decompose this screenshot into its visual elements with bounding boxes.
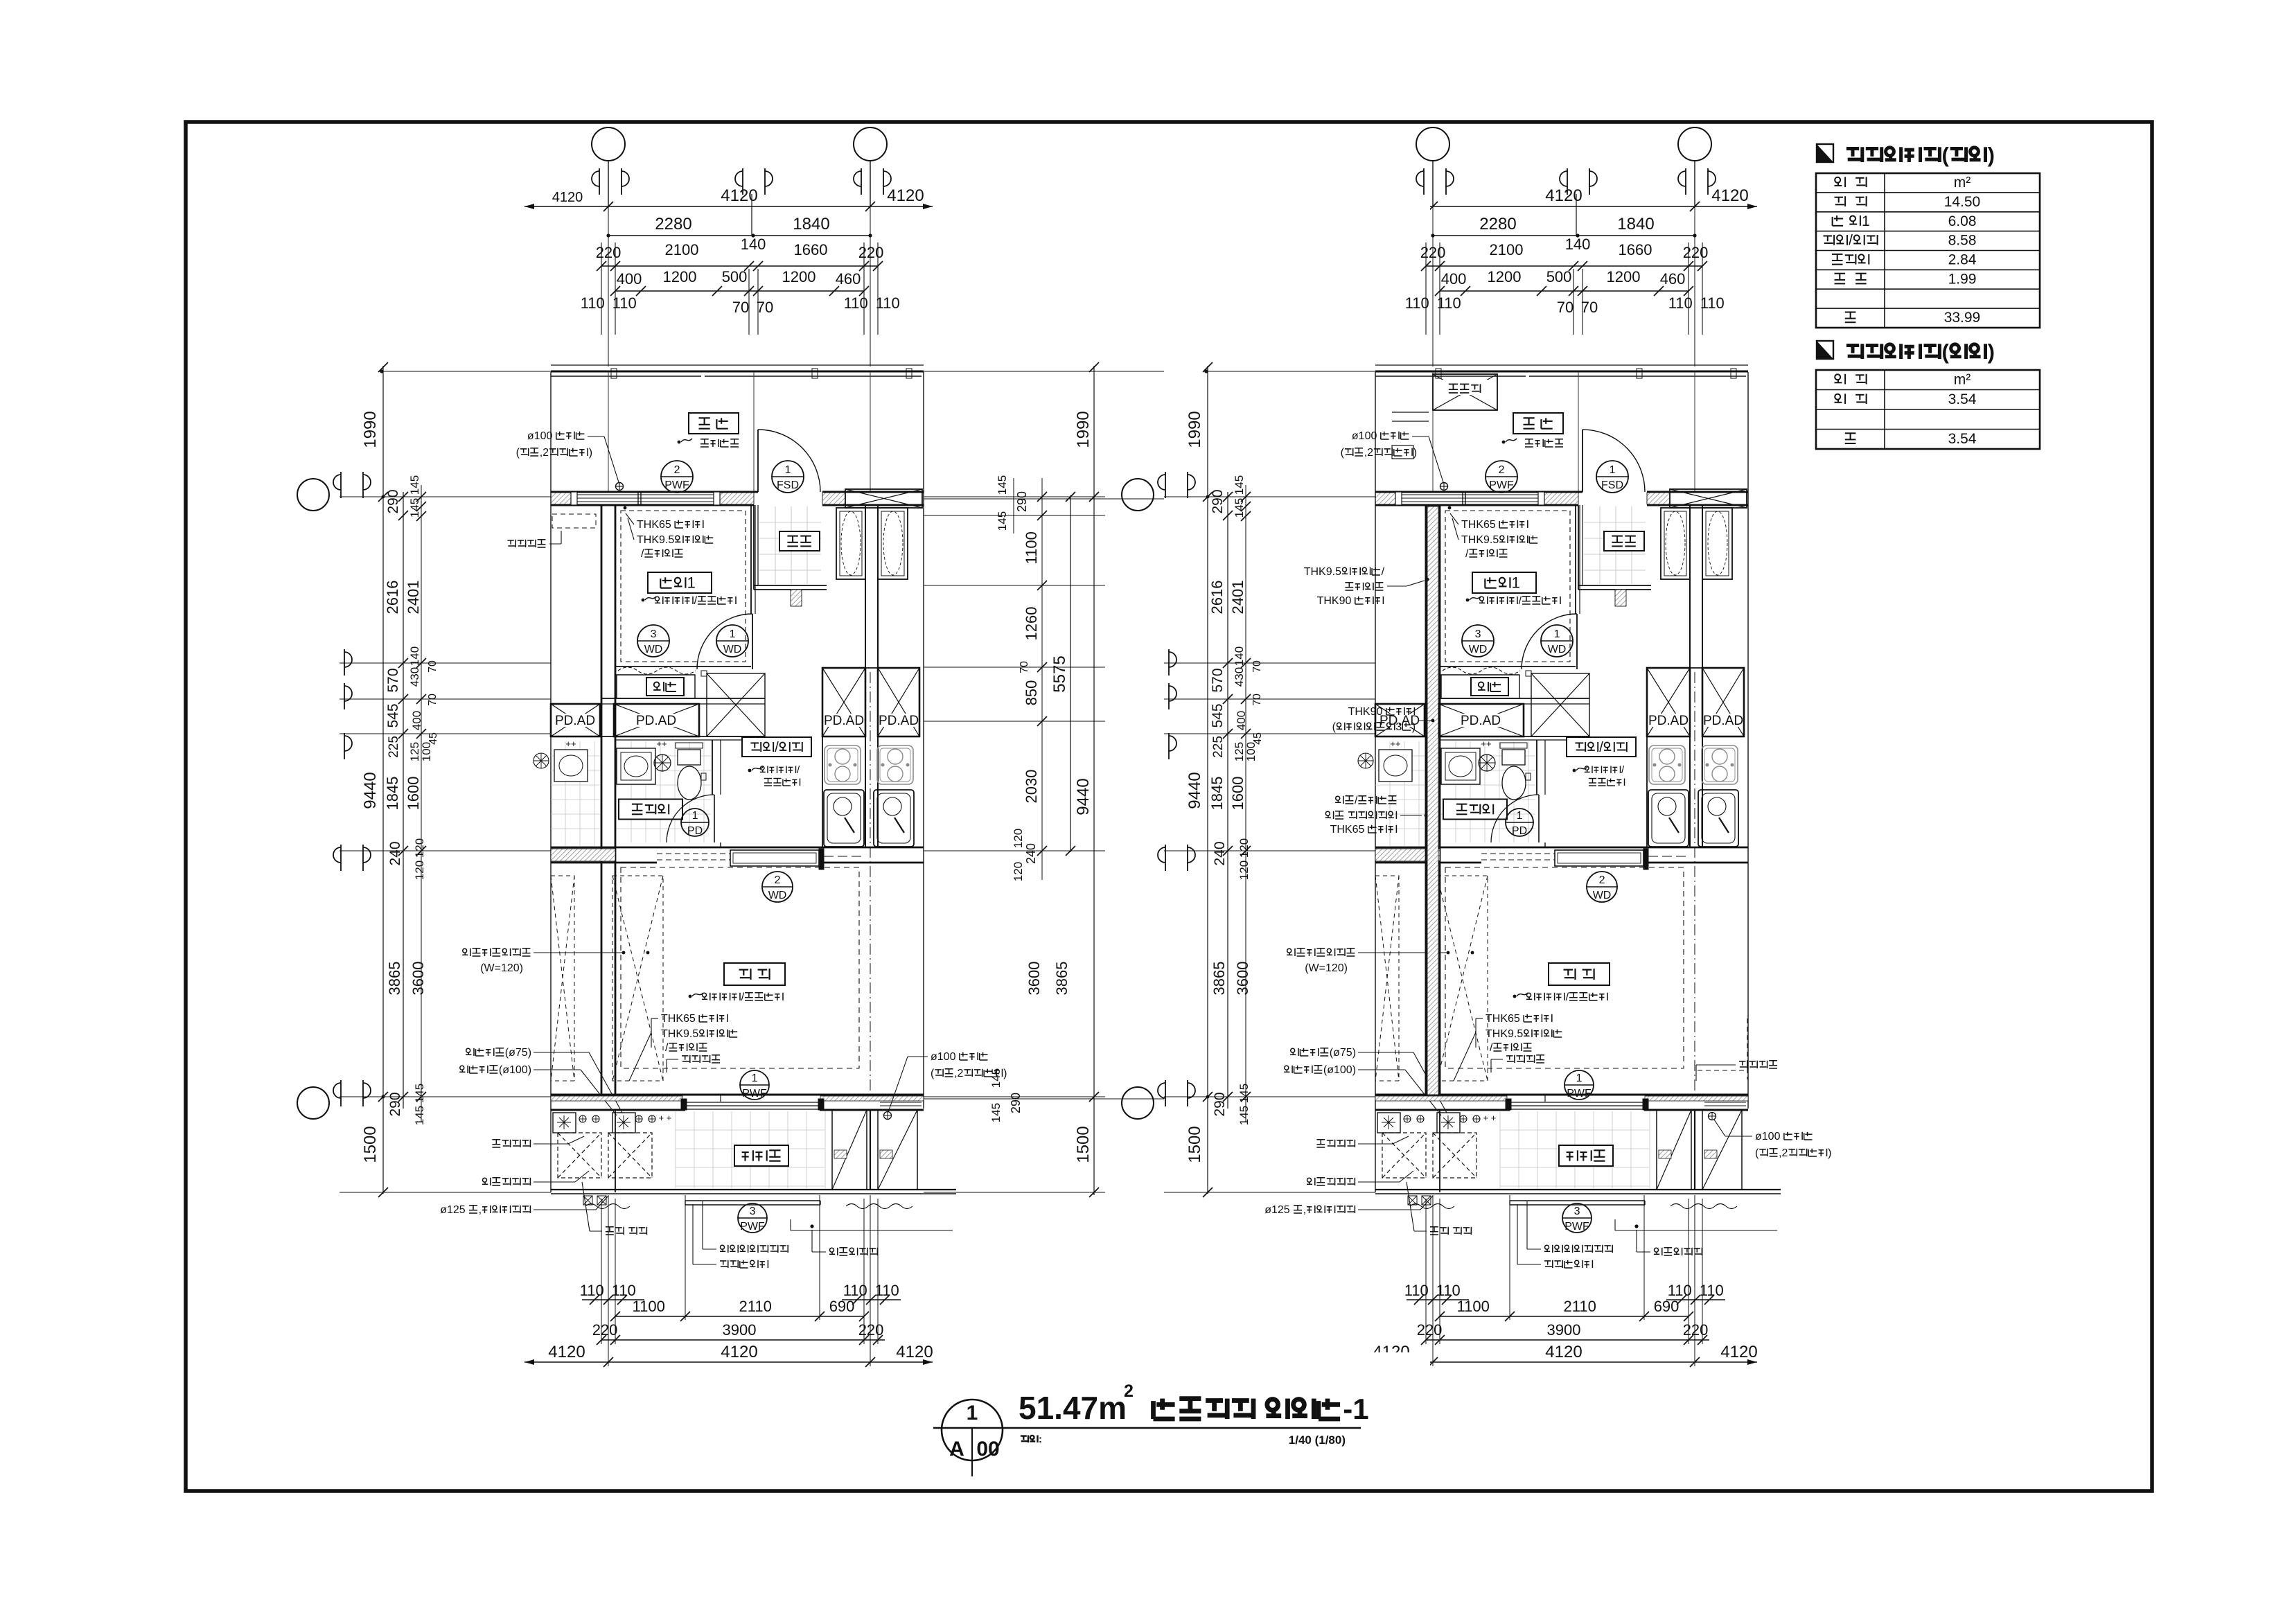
svg-text:/: / <box>1849 233 1853 249</box>
svg-text:145: 145 <box>413 1084 426 1103</box>
svg-text:51.47m: 51.47m <box>1019 1390 1127 1426</box>
svg-text:1100: 1100 <box>633 1298 665 1315</box>
svg-text:140: 140 <box>741 236 766 253</box>
svg-text:1: 1 <box>1862 213 1870 229</box>
svg-text:400: 400 <box>410 711 423 730</box>
svg-text:3.54: 3.54 <box>1948 391 1977 407</box>
svg-text:/: / <box>741 991 745 1003</box>
svg-text:1500: 1500 <box>361 1126 380 1163</box>
svg-text:THK9.5: THK9.5 <box>637 534 674 546</box>
svg-text:1: 1 <box>730 628 736 640</box>
svg-text:4120: 4120 <box>548 1343 585 1361</box>
svg-text:3.54: 3.54 <box>1948 431 1977 447</box>
svg-text:1/40 (1/80): 1/40 (1/80) <box>1289 1433 1346 1447</box>
svg-text:220: 220 <box>592 1321 618 1339</box>
svg-text:3600: 3600 <box>1025 962 1043 996</box>
svg-text:2110: 2110 <box>739 1298 772 1315</box>
svg-text:3865: 3865 <box>386 962 403 996</box>
svg-text:70: 70 <box>427 694 439 706</box>
svg-text:/: / <box>1355 795 1358 806</box>
svg-text:45: 45 <box>427 732 439 745</box>
svg-text:): ) <box>1988 339 1995 364</box>
svg-text:WD: WD <box>768 890 787 901</box>
svg-text:ø100: ø100 <box>931 1051 956 1063</box>
svg-text:290: 290 <box>1015 491 1029 512</box>
svg-text:3600: 3600 <box>409 962 427 996</box>
svg-text:THK9.5: THK9.5 <box>1304 566 1341 578</box>
svg-text:4120: 4120 <box>887 186 924 205</box>
svg-text:): ) <box>589 447 592 459</box>
svg-text:,2: ,2 <box>540 447 549 459</box>
svg-text:,: , <box>479 1204 482 1216</box>
svg-text:1.99: 1.99 <box>1948 271 1977 287</box>
svg-text:(: ( <box>1755 1147 1759 1159</box>
svg-text:145: 145 <box>996 511 1009 531</box>
svg-text:m²: m² <box>1954 175 1971 191</box>
svg-text:++: ++ <box>656 739 667 749</box>
svg-text:(: ( <box>1942 339 1950 364</box>
svg-text:14.50: 14.50 <box>1944 194 1981 210</box>
svg-text:2: 2 <box>1124 1382 1134 1401</box>
svg-text:3900: 3900 <box>723 1321 757 1339</box>
svg-text:8.58: 8.58 <box>1948 233 1977 249</box>
svg-text:1990: 1990 <box>361 411 380 448</box>
svg-text:545: 545 <box>385 703 401 727</box>
svg-text:/: / <box>694 595 698 607</box>
svg-text:PD.AD: PD.AD <box>636 714 676 728</box>
svg-text::: : <box>1039 1433 1042 1445</box>
svg-text:460: 460 <box>836 270 861 288</box>
svg-text:4120: 4120 <box>721 1343 757 1361</box>
svg-text:PD.AD: PD.AD <box>555 714 595 728</box>
svg-text:2100: 2100 <box>665 241 699 258</box>
svg-text:4120: 4120 <box>896 1343 933 1361</box>
svg-text:(W=120): (W=120) <box>480 962 523 974</box>
svg-text:WD: WD <box>644 644 663 655</box>
svg-text:240: 240 <box>1024 843 1038 864</box>
svg-text:WD: WD <box>723 644 742 655</box>
svg-text:1200: 1200 <box>663 268 697 285</box>
svg-text:-1: -1 <box>1343 1393 1368 1425</box>
svg-text:00: 00 <box>976 1438 999 1460</box>
svg-text:THK90: THK90 <box>1317 595 1352 607</box>
svg-text:1: 1 <box>687 574 696 592</box>
svg-text:PWF: PWF <box>740 1221 765 1233</box>
svg-text:430: 430 <box>408 667 421 687</box>
svg-text:1100: 1100 <box>1023 531 1040 564</box>
svg-text:/: / <box>775 740 779 755</box>
svg-text:1660: 1660 <box>794 241 828 258</box>
svg-text:110: 110 <box>580 1282 604 1299</box>
svg-text:): ) <box>1003 1068 1007 1079</box>
svg-text:6.08: 6.08 <box>1948 213 1977 229</box>
svg-text:850: 850 <box>1023 680 1040 706</box>
svg-text:145: 145 <box>413 1106 426 1125</box>
svg-text:1840: 1840 <box>793 215 829 233</box>
svg-text:/: / <box>665 1042 669 1054</box>
svg-text:110: 110 <box>612 1282 636 1299</box>
svg-text:570: 570 <box>385 668 401 692</box>
svg-text:1200: 1200 <box>782 268 816 285</box>
svg-text:145: 145 <box>408 498 421 518</box>
svg-text:,2: ,2 <box>1779 1147 1788 1159</box>
svg-text:): ) <box>1828 1147 1831 1159</box>
svg-text:2401: 2401 <box>405 581 422 615</box>
svg-text:1260: 1260 <box>1023 607 1040 641</box>
svg-text:3: 3 <box>1395 721 1402 733</box>
svg-text:290: 290 <box>387 1092 403 1116</box>
svg-text:PWF: PWF <box>664 479 689 491</box>
svg-text:(: ( <box>1332 721 1337 733</box>
svg-text:110: 110 <box>843 1282 867 1299</box>
svg-text:1: 1 <box>692 810 698 822</box>
svg-text:290: 290 <box>385 489 401 513</box>
svg-text:120: 120 <box>1012 829 1025 848</box>
svg-text:): ) <box>1988 143 1995 167</box>
svg-text:290: 290 <box>1009 1093 1023 1113</box>
svg-text:70: 70 <box>732 299 749 316</box>
svg-text:(: ( <box>516 447 520 459</box>
svg-text:(: ( <box>931 1068 935 1079</box>
svg-text:(ø100): (ø100) <box>499 1064 531 1076</box>
svg-text:PD: PD <box>687 825 703 837</box>
svg-text:THK65: THK65 <box>637 519 671 531</box>
svg-text:33.99: 33.99 <box>1944 310 1981 326</box>
svg-text:145: 145 <box>989 1103 1003 1122</box>
svg-text:110: 110 <box>612 294 637 312</box>
svg-text:++: ++ <box>565 739 576 749</box>
svg-text:2280: 2280 <box>655 215 691 233</box>
svg-text:A: A <box>949 1438 964 1460</box>
svg-text:2616: 2616 <box>384 581 401 615</box>
svg-text:225: 225 <box>387 736 401 758</box>
svg-text:120: 120 <box>413 838 426 858</box>
svg-text:145: 145 <box>996 475 1009 495</box>
svg-text:500: 500 <box>722 268 748 285</box>
svg-text:THK65: THK65 <box>661 1013 696 1025</box>
svg-text:120: 120 <box>413 860 426 880</box>
svg-text:1: 1 <box>752 1073 758 1084</box>
svg-text:): ) <box>1412 721 1416 733</box>
svg-text:4120: 4120 <box>552 190 583 205</box>
svg-text:220: 220 <box>858 244 884 261</box>
svg-text:,2: ,2 <box>954 1068 963 1079</box>
svg-text:9440: 9440 <box>361 772 380 809</box>
svg-text:+ +: + + <box>659 1113 672 1123</box>
svg-text:3865: 3865 <box>1053 962 1070 996</box>
svg-text:4120: 4120 <box>721 186 757 205</box>
svg-text:1600: 1600 <box>405 777 422 811</box>
svg-text:220: 220 <box>858 1321 884 1339</box>
svg-text:70: 70 <box>757 299 773 316</box>
svg-text:ø100: ø100 <box>1755 1131 1781 1142</box>
svg-text:1: 1 <box>785 464 791 476</box>
svg-text:3: 3 <box>750 1206 756 1217</box>
svg-text:400: 400 <box>617 270 642 288</box>
svg-text:2030: 2030 <box>1023 770 1040 804</box>
svg-text:1: 1 <box>967 1402 978 1424</box>
svg-text:3: 3 <box>651 628 657 640</box>
svg-text:ø125: ø125 <box>440 1204 466 1216</box>
svg-text:240: 240 <box>387 841 403 865</box>
svg-text:120: 120 <box>1012 862 1025 881</box>
svg-text:m²: m² <box>1954 372 1971 388</box>
svg-text:FSD: FSD <box>777 479 799 491</box>
svg-text:70: 70 <box>427 660 439 673</box>
svg-text:PD.AD: PD.AD <box>824 714 864 728</box>
svg-text:/: / <box>641 548 644 560</box>
svg-text:ø100: ø100 <box>527 430 553 442</box>
svg-text:110: 110 <box>876 294 900 312</box>
svg-text:(ø75): (ø75) <box>505 1047 531 1059</box>
svg-text:PD.AD: PD.AD <box>879 714 919 728</box>
svg-text:THK90: THK90 <box>1348 706 1383 718</box>
svg-text:THK65: THK65 <box>1330 824 1365 836</box>
svg-text:1500: 1500 <box>1074 1126 1093 1163</box>
svg-text:9440: 9440 <box>1074 778 1093 815</box>
svg-text:145: 145 <box>408 475 421 495</box>
svg-text:2: 2 <box>674 464 680 476</box>
svg-text:5575: 5575 <box>1050 655 1069 692</box>
svg-text:(: ( <box>1942 143 1950 167</box>
svg-text:2.84: 2.84 <box>1948 252 1977 268</box>
svg-text:/: / <box>1382 566 1385 578</box>
svg-text:110: 110 <box>875 1282 899 1299</box>
svg-text:2: 2 <box>775 874 781 886</box>
svg-text:1990: 1990 <box>1074 411 1093 448</box>
svg-text:THK9.5: THK9.5 <box>661 1028 698 1040</box>
svg-text:1845: 1845 <box>384 777 401 811</box>
svg-text:690: 690 <box>829 1298 855 1315</box>
